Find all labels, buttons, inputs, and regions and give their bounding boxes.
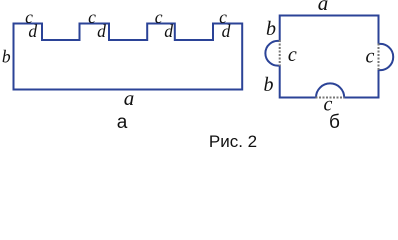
svg-text:d: d [28, 21, 37, 41]
svg-text:б: б [329, 112, 340, 133]
svg-text:c: c [288, 44, 297, 66]
svg-text:b: b [266, 18, 276, 40]
svg-text:а: а [117, 112, 128, 133]
svg-text:d: d [97, 21, 106, 41]
svg-text:c: c [366, 46, 375, 68]
svg-text:a: a [318, 0, 329, 15]
svg-text:d: d [164, 21, 173, 41]
svg-text:b: b [264, 74, 274, 96]
svg-text:c: c [155, 7, 163, 27]
svg-text:Рис. 2: Рис. 2 [209, 132, 257, 150]
svg-text:a: a [124, 86, 135, 110]
svg-text:b: b [2, 46, 11, 66]
svg-text:d: d [222, 21, 231, 41]
svg-text:c: c [88, 7, 96, 27]
